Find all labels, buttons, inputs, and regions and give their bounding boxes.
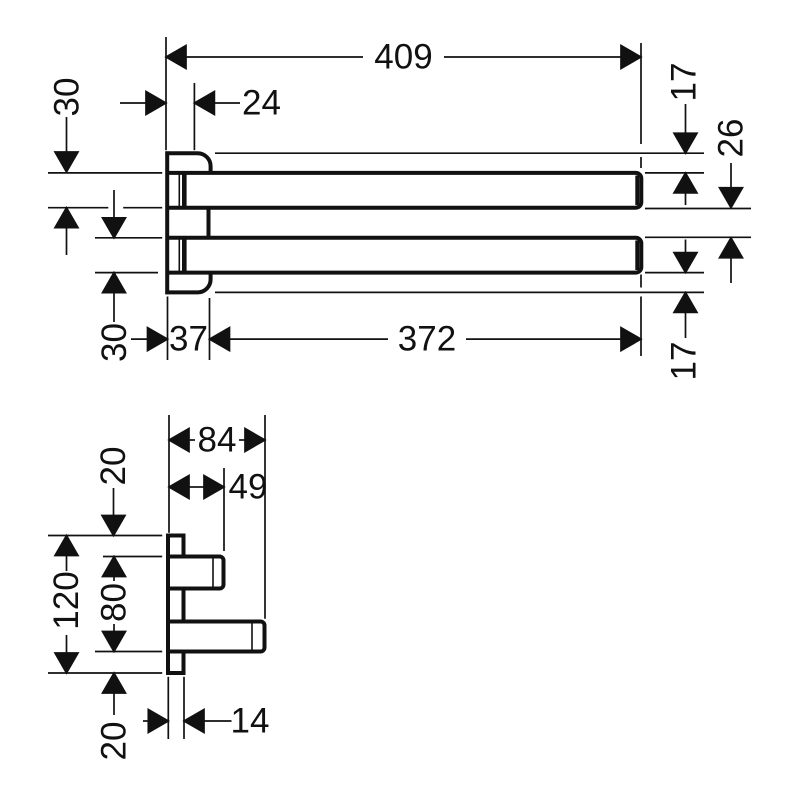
svg-text:30: 30: [95, 323, 134, 362]
label 30 bottom left: [95, 323, 134, 362]
dimension 409: [166, 46, 641, 69]
side view extension line x=169 (plate back): [168, 415, 170, 533]
label 30 top left: [48, 78, 87, 117]
dimension 17 (bottom right): [674, 240, 697, 339]
svg-text:80: 80: [95, 583, 134, 622]
extension line x=641 (bar right end): [640, 43, 642, 356]
svg-text:26: 26: [712, 119, 751, 158]
front view: towel bar 1: [169, 171, 642, 209]
svg-text:49: 49: [229, 468, 268, 507]
extension line y=153.2 right (bracket top): [215, 152, 704, 154]
svg-text:37: 37: [169, 320, 208, 359]
label 26: [712, 119, 751, 158]
svg-text:409: 409: [374, 38, 432, 77]
side view: bar2 profile (lower hook): [169, 622, 265, 652]
dimension 30 (bar1 height, left): [55, 117, 78, 255]
side view extension line x=184 down: [183, 677, 185, 739]
extension line y=207.7 left (bar1 bottom): [48, 207, 162, 209]
dimension 80: [103, 557, 126, 652]
extension line x=166 (left edge of bracket, front view): [165, 37, 167, 150]
svg-text:17: 17: [665, 342, 704, 381]
dimension 24: [120, 92, 240, 115]
dimension 84: [169, 429, 265, 452]
svg-text:84: 84: [198, 421, 237, 460]
front view: towel bar 2: [169, 236, 642, 274]
dimension 20 (top, side view): [102, 488, 125, 536]
dimension 14: [143, 710, 232, 733]
svg-text:372: 372: [398, 320, 456, 359]
svg-text:20: 20: [95, 722, 134, 761]
dimension 372: [230, 328, 642, 351]
side view extension line x=168.3 down: [167, 677, 169, 739]
label 80: [95, 583, 134, 622]
side view extension line y=673 (plate bottom): [48, 672, 162, 674]
svg-text:17: 17: [665, 63, 704, 102]
front view: bracket left edge: [165, 151, 169, 294]
extension line y=272.6 right: [645, 272, 704, 274]
extension line y=172.9 right: [645, 172, 704, 174]
extension line x=194.4 (24 dim): [193, 83, 195, 150]
label 37: [169, 320, 208, 359]
extension line y=237.8 left (bar2 top): [95, 237, 162, 239]
side view: plate left edge: [166, 534, 170, 675]
side view: bar1 profile (upper hook): [169, 557, 224, 589]
front view: wall bracket outline: [165, 153, 210, 292]
dimension 37: [131, 328, 230, 351]
svg-text:30: 30: [48, 78, 87, 117]
extension line y=237.8 right: [645, 236, 751, 238]
label 17 top right: [665, 63, 704, 102]
label 17 bottom right: [665, 342, 704, 381]
svg-text:120: 120: [47, 571, 86, 629]
side view extension line y=651.5 (bar2 bottom): [95, 651, 162, 653]
extension line y=207.7 right: [645, 208, 751, 210]
svg-text:20: 20: [94, 447, 133, 486]
dimension 30 (bar2 height, left lower): [103, 190, 126, 322]
extension line y=172.9 left (bar1 top): [48, 172, 162, 174]
side view extension line y=556.5 (bar1 top): [103, 556, 162, 558]
side view: wall plate: [168, 536, 184, 674]
svg-text:14: 14: [231, 702, 270, 741]
label 120: [47, 571, 86, 629]
label 24: [242, 84, 281, 123]
dimension 120: [55, 536, 78, 674]
dimension 26 (gap between bars): [720, 163, 743, 283]
svg-text:24: 24: [242, 84, 281, 123]
dimension 17 (top right): [674, 104, 697, 205]
side view extension line x=224 (bar1 tip): [223, 468, 225, 551]
label 372: [398, 320, 456, 359]
side view extension line y=535.5 (plate top): [48, 535, 162, 537]
label 49: [229, 468, 268, 507]
label 14: [231, 702, 270, 741]
dimension 20 (bottom, side view): [103, 673, 126, 715]
label 20 top: [94, 447, 133, 486]
label 409: [374, 38, 432, 77]
dimension 49: [169, 476, 224, 499]
label 20 bottom: [95, 722, 134, 761]
label 84: [198, 421, 237, 460]
extension line y=272.6 left (bar2 bottom): [95, 272, 158, 274]
side view extension line x=265 (bar2 tip): [264, 415, 266, 619]
extension line y=292.4 right: [215, 291, 704, 293]
extension line x=209.5 down (37 dim right): [209, 298, 211, 360]
extension line x=167.5 down (37 dim left): [167, 297, 169, 361]
